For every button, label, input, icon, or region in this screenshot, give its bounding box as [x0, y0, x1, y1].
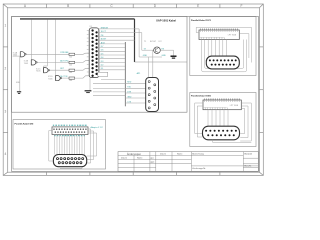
- svg-text:ACK: ACK: [101, 41, 106, 44]
- pin header SV3: [52, 127, 88, 135]
- wire resistor R3 to X1: [75, 68, 90, 70]
- row ticks left band: [3, 46, 8, 48]
- svg-text:SLCTIN: SLCTIN: [60, 76, 68, 78]
- svg-text:RXD: RXD: [127, 82, 132, 84]
- connector X1 DB25: [89, 28, 99, 78]
- svg-text:Blattzahl: Blattzahl: [244, 153, 252, 156]
- power bus: [20, 18, 135, 20]
- wire adapter out b: [152, 50, 154, 77]
- svg-text:BUSY: BUSY: [101, 39, 107, 41]
- svg-text:DTR: DTR: [127, 91, 132, 93]
- svg-text:100: 100: [69, 72, 72, 74]
- wire net GND to X2: [125, 97, 145, 99]
- svg-text:Parallel-Kabel 1971: Parallel-Kabel 1971: [191, 20, 212, 22]
- svg-text:Parallel-Kabel DSI: Parallel-Kabel DSI: [15, 124, 34, 126]
- wire IC1A input to ground: [19, 56, 21, 91]
- wire resistor R2 to X1: [75, 61, 90, 63]
- wire gate out to resistor R2: [37, 61, 69, 63]
- svg-text:Adapter X 1/2: Adapter X 1/2: [91, 126, 104, 129]
- svg-text:100: 100: [69, 64, 72, 66]
- wire net PE: [99, 36, 135, 38]
- wire net SLCT: [99, 32, 135, 34]
- wire DB25 bottom exit: [60, 167, 82, 169]
- drawing area border: [12, 16, 259, 171]
- ground GND2: [85, 90, 92, 92]
- column ticks bottom band: [46, 172, 48, 175]
- wire net DTR to X2: [125, 92, 145, 94]
- wire net D2: [99, 65, 126, 67]
- ground GND3: [171, 55, 177, 57]
- svg-text:Name: Name: [137, 158, 143, 160]
- svg-text:4: 4: [5, 152, 7, 156]
- wire bus tap to gate IC1B: [30, 20, 32, 60]
- routed wire left DSI: [49, 131, 54, 162]
- connector X2 DB9: [146, 78, 159, 112]
- wire bus tap to gate IC1C: [46, 20, 48, 66]
- wires header to DB15 1981: [208, 110, 228, 127]
- ground GND1: [17, 91, 21, 93]
- wire to ground: [173, 50, 175, 56]
- svg-text:SLCT: SLCT: [101, 31, 107, 33]
- connector DB15 1971: [206, 56, 239, 69]
- svg-text:Name: Name: [177, 154, 183, 156]
- wire net D4: [99, 58, 126, 60]
- inner frame band: [8, 8, 260, 172]
- wire 1981 bottom exit: [213, 140, 252, 143]
- box Parallel-Kabel 1971: [190, 17, 256, 76]
- wire net D7: [99, 47, 126, 49]
- wire adapter in 2: [135, 32, 142, 34]
- svg-text:GND: GND: [127, 96, 132, 98]
- connector DB15 1981: [203, 126, 240, 140]
- resistor R4: [69, 77, 75, 79]
- adapter box XAP-1001 bottom: [135, 61, 188, 63]
- column ticks top band: [46, 4, 48, 8]
- svg-text:BC547: BC547: [150, 41, 157, 43]
- routed wire right 1981: [240, 103, 251, 141]
- box Parallel-Kabel DSI: [13, 120, 106, 169]
- svg-text:ERROR: ERROR: [101, 27, 109, 29]
- resistor R1: [69, 53, 75, 55]
- svg-text:XAP-1001 Kabel: XAP-1001 Kabel: [156, 19, 176, 23]
- wire net ERROR: [99, 28, 135, 30]
- svg-text:gepr.: gepr.: [151, 161, 156, 164]
- svg-text:2: 2: [5, 67, 7, 71]
- svg-text:100: 100: [69, 80, 72, 82]
- wire IC2 out: [160, 49, 173, 51]
- wire net D3: [99, 61, 126, 63]
- svg-text:gez.: gez.: [151, 158, 155, 160]
- wire resistor R4 to X1: [75, 76, 90, 78]
- wire net BUSY: [99, 39, 135, 41]
- routed wires right DSI: [87, 129, 91, 163]
- X1 pin numbers left: [87, 31, 89, 76]
- wire net ACK: [99, 43, 126, 45]
- row ticks right band: [259, 46, 263, 48]
- svg-text:Datum: Datum: [160, 153, 166, 156]
- resistor R3: [69, 69, 75, 71]
- X2 pins right column: [154, 84, 156, 106]
- wire to IC2: [142, 49, 154, 51]
- wire net D6: [99, 50, 126, 52]
- svg-text:Bezeichnung: Bezeichnung: [192, 153, 204, 155]
- routed wire top 1971: [196, 27, 251, 62]
- wire net CTS to X2: [125, 102, 145, 104]
- inverter gate IC1C: [36, 68, 50, 73]
- wire gnd harness: [93, 95, 125, 97]
- resistor R2: [69, 61, 75, 63]
- wire net RXD to X2: [125, 82, 145, 84]
- wire bus tap to gate IC1D: [55, 20, 57, 76]
- routed wire loop outer 1971: [202, 40, 247, 72]
- svg-text:E: E: [197, 4, 199, 8]
- wires header to DB25: [55, 135, 85, 155]
- svg-text:Änderungen: Änderungen: [127, 152, 142, 156]
- jumper JP1: [98, 72, 108, 76]
- wire gate out to resistor R4: [62, 77, 69, 79]
- svg-text:STROBE: STROBE: [60, 52, 69, 54]
- X1 pins right column 14-25: [96, 31, 98, 74]
- svg-text:Parallel-Kabel 1981: Parallel-Kabel 1981: [191, 95, 212, 97]
- svg-text:F: F: [241, 4, 243, 8]
- inverter gate IC1B: [24, 60, 38, 65]
- wire net D1: [99, 69, 126, 71]
- box Parallel-Kabel 1981: [190, 93, 256, 147]
- pin net labels below header: [54, 135, 85, 137]
- pin header SV2 1981: [203, 98, 241, 109]
- svg-text:Blatt-Nr.: Blatt-Nr.: [244, 165, 252, 168]
- wire adapter in 1: [135, 28, 140, 30]
- title block texts: [121, 152, 253, 170]
- svg-text:100: 100: [69, 56, 72, 58]
- main schematic box: [12, 16, 187, 112]
- svg-text:AUTOFD: AUTOFD: [60, 59, 69, 62]
- wire net TXD to X2: [125, 87, 145, 89]
- wire adapter out a: [147, 57, 149, 77]
- X2 pins left column: [148, 81, 150, 109]
- svg-text:Zeichnungs-Nr.: Zeichnungs-Nr.: [192, 168, 206, 170]
- X1 ground stem: [89, 78, 91, 91]
- inverter gate IC1D: [48, 76, 62, 81]
- svg-text:LPT SUB: LPT SUB: [228, 35, 237, 37]
- wire resistor R1 to X1: [75, 53, 90, 54]
- wire gnd harness: [101, 79, 125, 81]
- transistor IC2: [154, 47, 161, 54]
- svg-text:B: B: [67, 4, 69, 8]
- svg-text:3: 3: [5, 109, 7, 113]
- harness vertical wire: [124, 42, 126, 106]
- wire gnd harness: [93, 91, 125, 93]
- svg-text:GND: GND: [162, 55, 167, 57]
- wire input IC1A: [13, 55, 21, 57]
- wires header to DB15 1971: [208, 40, 226, 57]
- wire gate out to resistor R1: [26, 53, 69, 55]
- title block: [118, 152, 258, 172]
- svg-text:LPT SUB: LPT SUB: [230, 105, 239, 107]
- pin net labels above header: [53, 124, 87, 126]
- svg-text:TXD: TXD: [127, 87, 131, 89]
- routed wire left 1981: [195, 103, 203, 134]
- X1 pins left column 1-13: [92, 30, 94, 77]
- inverter gate IC1A: [13, 51, 26, 57]
- pin header SV1 1971: [199, 28, 239, 39]
- connector DB25 X3: [53, 155, 86, 167]
- svg-text:1: 1: [5, 24, 7, 28]
- svg-text:Datum: Datum: [121, 157, 127, 160]
- bus vertical drop: [134, 19, 136, 62]
- svg-text:GND: GND: [143, 55, 148, 57]
- outer drawing frame: [3, 4, 263, 175]
- wire gnd harness: [93, 87, 125, 89]
- frame corner diagonals: [3, 4, 8, 8]
- wire gnd harness: [93, 83, 125, 85]
- wire net D5: [99, 54, 126, 56]
- wire adapter rail: [139, 56, 162, 58]
- wire gate out to resistor R3: [50, 69, 70, 71]
- routed wire loop inner 1971: [205, 40, 244, 69]
